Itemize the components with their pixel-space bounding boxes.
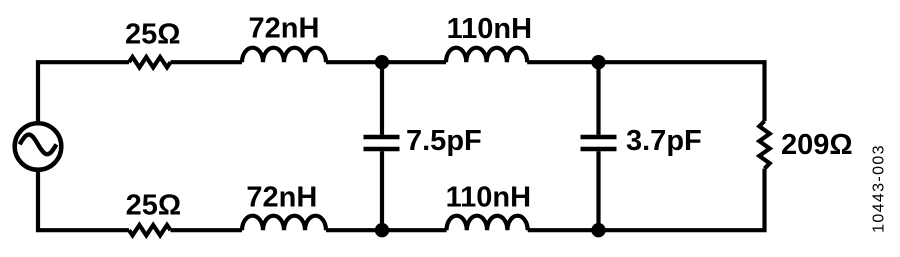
inductor L2 110nH top [446,48,527,63]
resistor R3 209Ω load [759,121,769,169]
svg-text:3.7pF: 3.7pF [626,125,702,157]
svg-text:110nH: 110nH [447,13,532,45]
svg-text:110nH: 110nH [446,181,531,213]
resistor R1 25Ω top [129,57,171,67]
wire node D to inductor L4 [528,228,599,232]
wire L3 to resistor R2 [171,228,243,232]
node A junction dot [375,55,389,69]
inductor L3 72nH bottom [242,216,326,231]
wire L1 to node A [326,60,382,64]
wire capacitor C1 to node C [380,151,384,230]
svg-text:25Ω: 25Ω [125,18,181,50]
wire R1 to inductor L1 [171,60,243,64]
capacitor C1 7.5pF plates [364,137,400,149]
svg-text:72nH: 72nH [249,13,320,45]
svg-text:7.5pF: 7.5pF [406,125,482,157]
wire node B down to capacitor C2 [596,62,600,135]
wire node A down to capacitor C1 [380,62,384,135]
svg-text:209Ω: 209Ω [781,129,853,161]
node B junction dot [591,55,605,69]
AC source V1 [15,123,62,170]
wire source top to resistor R1 [38,62,129,123]
svg-text:72nH: 72nH [246,181,317,213]
wire node A to inductor L2 [382,60,446,64]
wire capacitor C2 to node D [596,151,600,230]
wire L4 to node C [382,228,447,232]
node D junction dot [591,223,605,237]
inductor L1 72nH top [242,48,326,63]
wire R2 to source bottom [38,170,129,231]
resistor R2 25Ω bottom [129,225,171,235]
svg-text:25Ω: 25Ω [126,189,182,221]
inductor L4 110nH bottom [447,216,528,231]
wire L2 to node B [527,60,598,64]
svg-text:10443-003: 10443-003 [871,144,888,233]
wire node B to load resistor R3 [599,62,765,121]
node C junction dot [375,223,389,237]
wire node C to inductor L3 [326,228,382,232]
wire R3 to node D along bottom rail [599,169,765,231]
capacitor C2 3.7pF plates [581,137,617,149]
